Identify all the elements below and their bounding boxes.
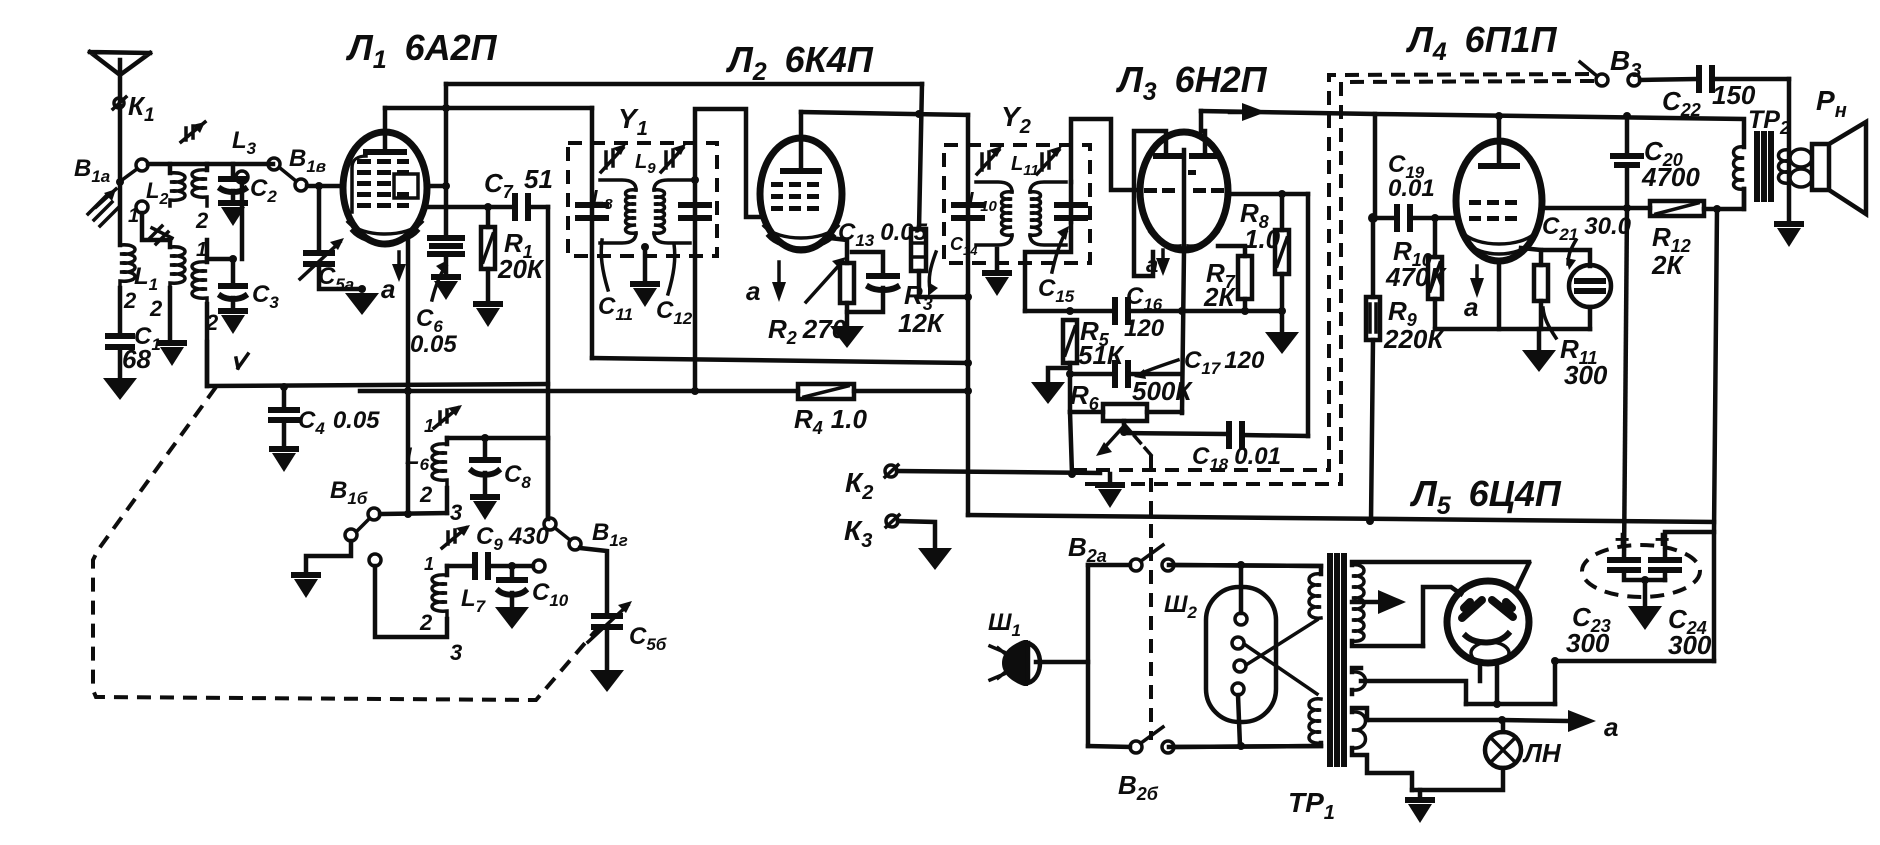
svg-text:2: 2 (419, 482, 433, 507)
svg-text:1: 1 (128, 205, 139, 227)
coil L4 lower (sec) (205, 240, 210, 262)
Y2 core arrows (977, 150, 999, 174)
switch B1g (546, 438, 551, 518)
L2 top bus to junction x919 and Y2 (801, 112, 968, 115)
core arrow above L6 (434, 408, 458, 428)
Y1 left spine + C11 plates (590, 108, 595, 358)
ground under R2 (845, 312, 850, 326)
svg-text:12К: 12К (898, 308, 945, 338)
coil L1 (118, 182, 123, 245)
long vertical x548 (546, 207, 551, 519)
bus y386 left (207, 342, 548, 386)
coil L5 lower-left (168, 240, 173, 247)
top bus y84 (446, 82, 922, 87)
svg-text:4700: 4700 (1641, 162, 1700, 192)
terminal 1 lower (136, 201, 148, 213)
capacitor C7 (512, 196, 518, 218)
terminal circle right of C2 (236, 171, 248, 183)
TP2 primary (1734, 147, 1745, 189)
electrolytics C23 C24 dashed can (1582, 545, 1700, 597)
B+ from filament (1466, 702, 1555, 707)
grid/plate wire y207 with C7 (427, 205, 511, 210)
plate line y208 to R12 (1542, 206, 1650, 211)
rectifier tube L5 (1447, 581, 1529, 663)
svg-text:а: а (1464, 292, 1478, 322)
ground under C5a (345, 293, 379, 315)
svg-text:С2130.0: С2130.0 (1542, 213, 1632, 244)
tube L3 internals: plates, center shield, grids, cathodes (1156, 153, 1216, 159)
Y2 right coil (1030, 182, 1066, 245)
tube L3 envelope (1140, 132, 1228, 250)
svg-text:2: 2 (123, 288, 137, 313)
tube L4 grids (1469, 200, 1517, 221)
vertical from R12 node down to C24 (1714, 209, 1717, 661)
antenna (90, 52, 150, 100)
L3 grid line right to R8 junction (1228, 192, 1308, 197)
svg-text:С40.05: С40.05 (298, 407, 380, 438)
cap C10 (510, 566, 515, 578)
HV center tap chassis arrow (1352, 600, 1378, 605)
svg-text:С17120: С17120 (1184, 347, 1265, 378)
B+ vertical from C20 node down to C23 (1624, 208, 1627, 560)
ground under heater (1418, 790, 1423, 797)
wire antenna to switch (118, 106, 123, 182)
variable cap C5b (594, 613, 620, 619)
switch B1v (268, 158, 280, 170)
TP1 primary lower (1309, 699, 1321, 743)
capacitor C2 (231, 164, 236, 177)
vertical x1308 down to C18 line (1306, 194, 1311, 436)
svg-text:120: 120 (1124, 315, 1165, 342)
long bus y515-522 (968, 515, 1714, 522)
ground under C3 (218, 308, 248, 334)
switch tick on y386 (236, 354, 248, 368)
svg-text:300: 300 (1564, 360, 1608, 390)
lower coil L6 (447, 436, 548, 441)
trimmer hatch at B1a (88, 189, 118, 226)
selector cross wires (1244, 644, 1317, 694)
cap C13 (852, 252, 883, 274)
svg-text:1.0: 1.0 (1244, 224, 1281, 254)
ground under C1 (103, 378, 137, 400)
IF transformer Y2 dashed box (944, 145, 1090, 263)
L3 right plate bus to L4 grid, with arrow (1201, 111, 1375, 218)
svg-text:Л46П1П: Л46П1П (1405, 19, 1558, 66)
Y2 left spine + C14 (966, 115, 971, 515)
svg-text:а: а (746, 276, 760, 306)
resistor R9 (1371, 218, 1376, 297)
svg-text:Л26К4П: Л26К4П (725, 39, 874, 86)
tube L4 envelope (1456, 141, 1542, 261)
cap C20 (1625, 116, 1630, 154)
TP2 secondary (1779, 150, 1790, 183)
svg-text:2: 2 (195, 208, 209, 233)
shield dashed box around L3/L4 stages (1073, 74, 1598, 470)
core arrow at C9 (442, 528, 466, 548)
heater line with arrow (1367, 718, 1502, 723)
svg-text:51: 51 (524, 164, 553, 194)
svg-text:2К: 2К (1203, 282, 1236, 312)
tube L1 internals (366, 149, 404, 155)
dashed band-switch outline (93, 387, 604, 700)
screen wire x446 (444, 84, 449, 238)
coil L3 (205, 164, 210, 170)
Y2 left coil (976, 182, 1012, 245)
cathode node y250 (1521, 248, 1590, 266)
K1 terminal (114, 98, 124, 108)
ground at shield corner (1108, 474, 1113, 482)
Y1 grid elbow to L2 (695, 109, 763, 217)
cap C6 (430, 235, 462, 241)
L3 cathode vertical (1182, 251, 1184, 413)
svg-text:R41.0: R41.0 (794, 404, 867, 438)
plate bus y116 (1375, 114, 1744, 147)
svg-text:0.01: 0.01 (1388, 175, 1435, 202)
svg-text:2: 2 (149, 296, 163, 321)
cathode bus y311 with C16 (1025, 309, 1111, 314)
resistor R3 (911, 229, 926, 271)
TP1 primary upper (1309, 574, 1321, 618)
tube L4 top cap (1497, 116, 1502, 166)
L5 filament winding (1352, 672, 1366, 690)
Y2 right spine + C15 (1069, 182, 1074, 222)
resistor R11 (1539, 250, 1544, 265)
cathode bus y329 (1435, 327, 1590, 332)
Y1 core arrows (601, 148, 623, 172)
svg-text:С130.05: С130.05 (838, 219, 928, 250)
pot wiper and C18 line (1124, 421, 1225, 434)
ground under C2 (218, 200, 248, 226)
svg-text:а: а (381, 274, 395, 304)
switch B1a (136, 159, 148, 171)
capacitor C1 (118, 288, 123, 334)
C17 line (1070, 372, 1111, 377)
IF transformer Y1 dashed box (568, 143, 717, 256)
a arrow at L2 cathode (777, 262, 781, 292)
a arrow at L4 (1475, 266, 1479, 288)
cathode vertical x408 (406, 240, 411, 514)
cap C8 (483, 438, 488, 458)
svg-text:а: а (1146, 252, 1158, 277)
Y1 center ground (643, 247, 648, 279)
coil L2 (168, 164, 173, 173)
resistor R1 (486, 207, 491, 227)
tube L2 grids (771, 182, 819, 211)
svg-text:Л16А2П: Л16А2П (345, 27, 498, 74)
resistor R5 (1063, 320, 1077, 363)
svg-text:470К: 470К (1385, 262, 1447, 292)
wire B1v to tube grid (307, 184, 344, 189)
wire node row y164 (148, 162, 273, 167)
bus y358 under Y1 (592, 358, 968, 363)
svg-text:1: 1 (424, 554, 434, 574)
cap C22 (1640, 79, 1695, 80)
ground under cans (1643, 580, 1648, 606)
Y1 right coil (654, 180, 690, 243)
svg-text:+: + (1614, 524, 1629, 554)
svg-text:300: 300 (1566, 628, 1610, 658)
svg-text:1: 1 (424, 416, 434, 436)
TP1 HV secondary (1352, 565, 1364, 641)
svg-text:3: 3 (450, 500, 462, 525)
tube L1 envelope (343, 132, 427, 244)
cap C21 electrolytic circle (1569, 265, 1611, 307)
svg-text:0.05: 0.05 (410, 331, 457, 358)
pot left leg down to shield ground (1070, 412, 1072, 474)
cap C4 (282, 386, 287, 408)
ground under L5 (157, 340, 187, 366)
tube L2 envelope (760, 138, 842, 250)
svg-text:500К: 500К (1132, 376, 1193, 406)
svg-text:С9430: С9430 (476, 523, 550, 554)
svg-text:2К: 2К (1651, 250, 1684, 280)
Y1 right spine + C12 plates (693, 180, 698, 391)
a arrow at L1 cathode (397, 252, 401, 274)
svg-text:68: 68 (122, 344, 151, 374)
core arrow above L3 (181, 122, 205, 142)
capacitor C3 (207, 259, 233, 284)
resistor R10 (1433, 218, 1438, 257)
svg-text:ЛН: ЛН (1522, 738, 1562, 768)
svg-text:а: а (1604, 712, 1618, 742)
Y2 C15 bottom to C16 line (1025, 222, 1071, 311)
resistor R7 (1218, 246, 1245, 256)
Y2 grid elbow to L3 (1071, 119, 1141, 190)
AGC bus y391 with R4 (360, 389, 798, 394)
variable cap C5a (317, 190, 322, 251)
vertical x919 from top bus to R3 (919, 84, 922, 229)
L4 cathode (1497, 261, 1502, 329)
wire B1g to C5b (580, 548, 607, 614)
Y2 center ground (995, 249, 1000, 268)
tube L1 top cap wire (383, 108, 388, 152)
resistor R8 (1280, 194, 1285, 230)
svg-text:Л56Ц4П: Л56Ц4П (1409, 473, 1562, 520)
a arrow at L3 (1161, 250, 1165, 266)
R2 wire from cathode (830, 238, 847, 263)
svg-text:2: 2 (419, 610, 433, 635)
pot wiper arrow dashed link (1124, 424, 1151, 455)
svg-text:Л36Н2П: Л36Н2П (1115, 59, 1268, 106)
svg-text:300: 300 (1668, 630, 1712, 660)
tube L2 top cap (799, 112, 804, 171)
ground under R7/R8 (1280, 311, 1285, 332)
svg-text:3: 3 (450, 640, 462, 665)
heater 6.3V winding (1352, 712, 1366, 748)
Y1 left coil (600, 180, 636, 243)
L5 anode wires (1517, 563, 1529, 588)
bus y108 L1 top to Y1 (385, 106, 592, 111)
svg-text:20К: 20К (497, 254, 545, 284)
coil L7 (445, 566, 450, 575)
core hatch at L5 (150, 226, 172, 244)
cap C19 (1373, 216, 1393, 221)
resistor R2 (840, 263, 854, 303)
pilot lamp LN (1485, 732, 1521, 768)
